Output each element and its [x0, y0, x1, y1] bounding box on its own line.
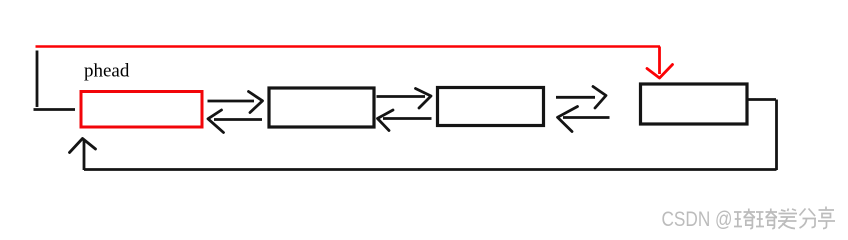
arrow next 2 to 3 head	[416, 89, 432, 109]
arrow prev 3 to 2 head	[378, 110, 394, 131]
wire: right vertical down	[775, 100, 778, 171]
watermark CJK glyph 3 (ai)	[778, 209, 797, 229]
node 3 box	[438, 88, 544, 126]
arrow next 1 to 2 head	[249, 92, 263, 113]
head node (red box)	[81, 92, 202, 128]
svg-text:CSDN @: CSDN @	[662, 209, 733, 232]
black arrowhead up into head node	[70, 139, 96, 153]
red arrowhead into node4	[647, 65, 673, 79]
watermark CJK glyph 1 (qi)	[734, 209, 755, 229]
node 4 box	[641, 84, 748, 124]
wire: black horizontal into head node	[34, 108, 76, 111]
wire: red vertical drop into node4	[658, 47, 661, 75]
wire: red next-pointer top horizontal	[36, 45, 661, 48]
wire: left vertical up to head	[83, 139, 86, 170]
arrow next 3 to 4 shaft	[556, 96, 595, 99]
arrow next 1 to 2 shaft	[208, 100, 255, 103]
wire: bottom return horizontal	[84, 168, 777, 171]
watermark CJK glyph 5 (xiang)	[818, 207, 835, 229]
node 2 box	[269, 88, 374, 127]
wire: node4 out to right	[749, 98, 777, 101]
arrow prev 4 to 3 head	[558, 107, 578, 132]
arrow next 3 to 4 head	[593, 87, 606, 109]
arrow prev 3 to 2 shaft	[383, 117, 432, 120]
watermark CJK glyph 4 (fen)	[800, 209, 817, 229]
arrow prev 2 to 1 shaft	[214, 118, 262, 121]
wire: black vertical at far left	[36, 51, 39, 108]
arrow prev 4 to 3 shaft	[563, 116, 610, 119]
label phead	[84, 61, 130, 82]
arrow next 2 to 3 shaft	[377, 95, 426, 98]
watermark CJK glyph 2 (qi)	[756, 209, 777, 229]
watermark CSDN	[662, 209, 733, 232]
svg-text:phead: phead	[84, 61, 130, 82]
arrow prev 2 to 1 head	[208, 110, 224, 133]
